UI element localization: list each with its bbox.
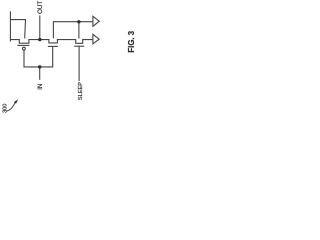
svg-text:300: 300: [2, 104, 8, 113]
svg-text:OUT: OUT: [37, 1, 44, 14]
svg-text:SLEEP: SLEEP: [78, 82, 84, 100]
svg-text:IN: IN: [37, 84, 44, 90]
svg-text:FIG. 3: FIG. 3: [127, 30, 136, 52]
